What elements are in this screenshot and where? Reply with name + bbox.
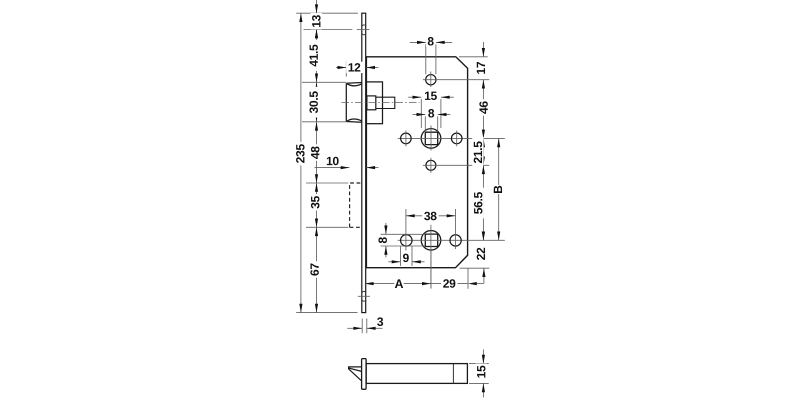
lower fixing hole of upper group bbox=[426, 160, 436, 170]
lower fixing hole centreline bbox=[423, 164, 489, 166]
lever follower vertical centreline bbox=[430, 126, 432, 151]
dimension 235 line bbox=[300, 13, 302, 312]
dimension 15 side arrows bbox=[482, 355, 485, 364]
WC follower outer circle bbox=[421, 231, 441, 251]
dimension 15 side stems bbox=[482, 350, 484, 364]
dimension A line bbox=[365, 283, 431, 285]
WC follower vertical centreline bbox=[430, 225, 432, 289]
lower right fixing hole (9 mm) bbox=[450, 235, 461, 246]
latch bolt tail block inside case bbox=[366, 82, 382, 124]
dimension 8 top text bbox=[426, 36, 435, 47]
extension line case top right bbox=[459, 56, 488, 58]
dimension 30.5 line bbox=[316, 82, 318, 122]
extension line deadbolt bottom bbox=[306, 226, 348, 228]
upper fixing hole centreline bbox=[423, 79, 489, 81]
dimension 15 side text bbox=[476, 364, 487, 380]
dimension B text bbox=[492, 185, 503, 194]
lower group horizontal centreline bbox=[398, 239, 505, 241]
latch bolt head (projecting, curved faces) bbox=[346, 83, 361, 123]
dimension 235 bottom arrow bbox=[299, 304, 302, 313]
dimension 15 stems bbox=[408, 96, 421, 98]
dimension 29 outside arrow bbox=[468, 282, 477, 285]
dimension 35 line bbox=[316, 183, 318, 227]
dimension 30.5 text bbox=[308, 87, 319, 118]
extension line faceplate top bbox=[296, 12, 358, 14]
dimension 38 line bbox=[406, 215, 456, 217]
dimension 21.5 arrows bbox=[482, 138, 485, 147]
dimension 12 right stem bbox=[366, 67, 378, 69]
dimension 3 left stem bbox=[347, 327, 362, 329]
dimension 3 right arrow bbox=[367, 327, 376, 330]
latch bolt stem bbox=[383, 97, 395, 108]
WC follower square bbox=[425, 234, 437, 246]
dimension 41.5 text bbox=[308, 40, 319, 71]
dimension 48 line bbox=[316, 122, 318, 183]
dimension 12 extension line bbox=[345, 62, 347, 77]
upper group horizontal centreline bbox=[398, 137, 505, 139]
faceplate (front view, 235 mm strip) bbox=[362, 13, 366, 312]
dimension 8 lower stems bbox=[385, 223, 387, 234]
latch centreline (dash-dot) bbox=[342, 101, 420, 103]
upper right fixing hole bbox=[451, 133, 462, 144]
dimension 10 line bbox=[315, 167, 350, 169]
dimension 15 extension lines bbox=[420, 99, 422, 128]
dimension 35 text bbox=[310, 194, 321, 210]
dimension 67 text bbox=[309, 261, 320, 277]
dimension 10 right arrow bbox=[366, 166, 375, 169]
dimension 21.5 text bbox=[472, 137, 483, 168]
latch bolt side view body bbox=[366, 364, 467, 384]
dimension A left arrow bbox=[365, 282, 374, 285]
dimension 48 arrows bbox=[315, 122, 318, 131]
dimension 3 extension lines bbox=[361, 319, 363, 334]
dimension 22 lower stem bbox=[483, 268, 485, 283]
latch bolt side view end line bbox=[452, 364, 454, 384]
dimension 8 mid extension lines bbox=[424, 116, 426, 131]
extension line faceplate bottom bbox=[296, 312, 357, 314]
dimension 8 lower extension lines bbox=[381, 233, 425, 235]
upper fixing hole vertical tick bbox=[430, 72, 432, 88]
dimension 56.5 text bbox=[473, 188, 484, 219]
dimension 41.5 arrows bbox=[315, 30, 318, 39]
dimension 38 arrows bbox=[406, 214, 415, 217]
extension line top screw slot bbox=[304, 29, 353, 31]
dimension 13 upper arrow bbox=[315, 4, 318, 13]
dimension 3 text bbox=[377, 317, 383, 326]
dimension 67 arrows bbox=[315, 227, 318, 236]
lever follower outer circle (15 mm) bbox=[421, 129, 441, 149]
dimension 8 mid arrows bbox=[417, 113, 426, 116]
faceplate bottom screw slot centre tick bbox=[358, 295, 370, 297]
dimension 38 extension lines bbox=[405, 209, 407, 251]
dimension 30.5 arrows bbox=[315, 82, 318, 91]
dimension 8 top extension lines bbox=[425, 44, 427, 74]
dimension A text bbox=[394, 278, 403, 290]
lower fixing hole tick bbox=[430, 158, 432, 173]
dimension 46 line bbox=[482, 80, 484, 139]
dimension 29 line bbox=[431, 283, 468, 285]
dimension B line bbox=[498, 138, 500, 240]
faceplate top screw slot bbox=[362, 25, 366, 35]
dimension 22 arrows bbox=[482, 268, 485, 277]
upper fixing hole (8 mm) bbox=[426, 75, 436, 85]
dimension 10 right stem bbox=[366, 167, 378, 169]
dimension 29 text bbox=[441, 278, 457, 289]
dimension 8 mid stems bbox=[413, 114, 426, 116]
extension line case right edge bottom bbox=[467, 268, 469, 289]
lower left fixing hole (9 mm) bbox=[401, 235, 413, 247]
dimension 10 text bbox=[324, 155, 340, 166]
dimension 35 arrows bbox=[315, 183, 318, 192]
dimension 21.5 line bbox=[482, 138, 484, 165]
latch bolt tail narrow section bbox=[376, 97, 383, 108]
dimension 67 line bbox=[316, 227, 318, 312]
faceplate top screw slot centre tick bbox=[357, 29, 370, 31]
extension line case bottom right bbox=[460, 267, 490, 269]
dimension 10 left arrow bbox=[341, 166, 350, 169]
dimension 9 extension lines bbox=[400, 246, 402, 266]
latch bolt side view bevel bbox=[349, 367, 362, 381]
dimension 48 text bbox=[310, 144, 321, 160]
dimension 235 top arrow bbox=[299, 13, 302, 22]
dimension B arrows bbox=[497, 138, 500, 147]
upper left hole tick bbox=[405, 131, 407, 147]
dimension 56.5 line bbox=[482, 165, 484, 240]
upper left fixing hole bbox=[401, 133, 412, 144]
lever follower square bbox=[425, 132, 437, 144]
dimension A right arrow bbox=[422, 282, 431, 285]
dimension 17 text bbox=[475, 60, 486, 76]
dimension 38 text bbox=[422, 210, 438, 221]
dimension 56.5 arrows bbox=[482, 165, 485, 174]
extension line latch bottom bbox=[302, 121, 346, 123]
dimension 3 left arrow bbox=[353, 327, 362, 330]
dimension 3 right stem bbox=[367, 327, 383, 329]
lock case outline (chamfered corners) bbox=[366, 57, 467, 268]
dimension 13 stems bbox=[316, 0, 318, 13]
dimension 235 text bbox=[295, 142, 306, 166]
extension line deadbolt top bbox=[306, 182, 348, 184]
dimension 9 stems bbox=[388, 261, 400, 263]
dimension 13 lower arrow bbox=[315, 30, 318, 39]
dimension 15 arrows bbox=[413, 96, 422, 99]
extension line latch top bbox=[302, 81, 346, 83]
dimension 15 side extension lines bbox=[469, 363, 489, 365]
dimension 8 lower arrows bbox=[384, 226, 387, 235]
dimension 8 top stems bbox=[410, 41, 426, 43]
upper right hole tick bbox=[456, 131, 458, 147]
faceplate bottom screw slot bbox=[362, 291, 366, 301]
dimension 46 arrows bbox=[482, 80, 485, 89]
dimension 17 upper stem bbox=[482, 42, 484, 57]
dimension 17 upper arrow bbox=[482, 48, 485, 57]
deadbolt shown retracted (dashed) bbox=[350, 183, 362, 227]
latch bolt side view faceplate section bbox=[362, 359, 367, 390]
dimension 22 text bbox=[475, 246, 486, 262]
dimension 13 text bbox=[311, 13, 322, 29]
dimension 8 top arrows bbox=[417, 41, 426, 44]
dimension 9 arrows bbox=[392, 260, 401, 263]
dimension 12 left stem bbox=[336, 67, 346, 69]
dimension 46 text bbox=[478, 99, 489, 115]
dimension 12 right arrow bbox=[366, 66, 375, 69]
latch bolt tail step box bbox=[367, 96, 376, 110]
extension line spindle centre bottom bbox=[430, 251, 432, 289]
dimension 12 text bbox=[346, 62, 362, 73]
dimension 8 mid text bbox=[427, 108, 436, 119]
dimension 9 text bbox=[401, 252, 410, 263]
dimension 15 text bbox=[423, 90, 439, 101]
dimension 8 lower text bbox=[377, 236, 388, 245]
dimension 12 left arrow bbox=[338, 66, 347, 69]
